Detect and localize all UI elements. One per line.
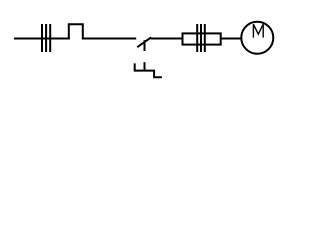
switch blade (foot switch, NO contact) (137, 37, 151, 47)
component box (183, 33, 221, 44)
pulse shape in line (69, 24, 83, 39)
wire (switch to box) (151, 38, 183, 40)
motor letter M (253, 24, 263, 37)
mechanical linkage (dashed) (144, 40, 146, 51)
wire (box to motor) (221, 38, 241, 40)
wire (left lead) (14, 38, 70, 40)
triple-bar symbol (left contacts) (42, 24, 50, 52)
wire (pulse to switch) (82, 38, 136, 40)
motor M (circle) (241, 22, 273, 54)
actuator stem (144, 62, 146, 70)
pedal actuator (foot-operated) (134, 63, 162, 77)
triple-bar symbol (inside box) (197, 24, 205, 52)
